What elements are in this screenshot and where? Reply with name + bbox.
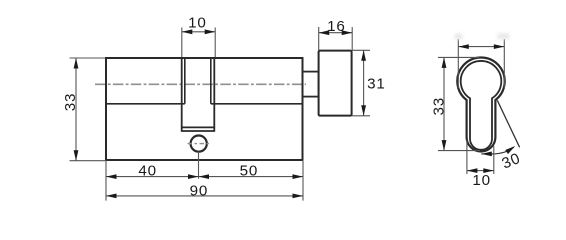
bottom extension right xyxy=(302,160,304,201)
svg-text:40: 40 xyxy=(138,163,157,180)
dim 10 extension right xyxy=(214,28,216,58)
cam cup lower line xyxy=(182,130,215,132)
top unlabeled dim extension left xyxy=(457,39,459,88)
svg-text:16: 16 xyxy=(327,18,346,35)
bottom extension left xyxy=(105,160,107,201)
dim 10 right line xyxy=(467,170,494,172)
body outline xyxy=(106,58,303,160)
dim 10 right extension right xyxy=(493,146,495,174)
thumbturn knob xyxy=(319,51,352,116)
top unlabeled dim extension right xyxy=(503,39,505,88)
centerline main axis xyxy=(95,83,306,85)
dim 33 right extension bottom xyxy=(438,150,480,152)
cam cup upper line xyxy=(182,126,215,128)
dim 33 extension bottom xyxy=(70,160,106,162)
dim 40/50 line xyxy=(106,176,303,178)
dim 33 right extension top xyxy=(438,56,479,58)
dim 31 line xyxy=(363,50,365,116)
fixing screw hole xyxy=(191,136,207,152)
bottom extension middle xyxy=(198,152,200,179)
dim 90 line xyxy=(106,195,303,197)
dim 10 extension left xyxy=(181,28,183,58)
dim 31 extension top xyxy=(352,49,370,51)
dim 33 right line xyxy=(443,57,445,150)
dim 33 line xyxy=(75,58,77,161)
angle 30 leader arc xyxy=(481,147,514,154)
dim 16 line xyxy=(319,32,353,34)
top unlabeled dim line xyxy=(458,46,504,48)
thumbturn neck xyxy=(303,72,319,97)
keyhole outer contour xyxy=(457,57,504,151)
dim 10 line xyxy=(182,31,215,33)
barrel bottom line right xyxy=(211,103,303,105)
svg-text:33: 33 xyxy=(62,93,79,112)
keyhole inner contour xyxy=(461,61,502,150)
svg-text:31: 31 xyxy=(367,75,386,92)
barrel bottom line left xyxy=(106,103,185,105)
svg-text:10: 10 xyxy=(188,14,207,31)
screw hole centerline xyxy=(188,143,211,145)
faint cropped text remnant right xyxy=(498,33,510,39)
dim 16 extension left xyxy=(318,27,320,50)
chamfer angle reference line xyxy=(497,100,519,147)
svg-text:90: 90 xyxy=(190,183,209,200)
dim 10 right extension left xyxy=(466,140,468,174)
svg-text:10: 10 xyxy=(472,172,491,189)
dim 16 extension right xyxy=(351,27,353,50)
faint cropped text remnant left xyxy=(455,34,463,40)
svg-text:33: 33 xyxy=(431,97,448,116)
cam slot outer left wall xyxy=(181,58,183,132)
cam slot outer right wall xyxy=(213,58,215,132)
dim 31 extension bottom xyxy=(352,115,370,117)
cam slot inner right line xyxy=(210,58,212,104)
cam slot inner left line xyxy=(184,58,186,104)
svg-text:50: 50 xyxy=(240,163,259,180)
dim 33 extension top xyxy=(70,57,106,59)
